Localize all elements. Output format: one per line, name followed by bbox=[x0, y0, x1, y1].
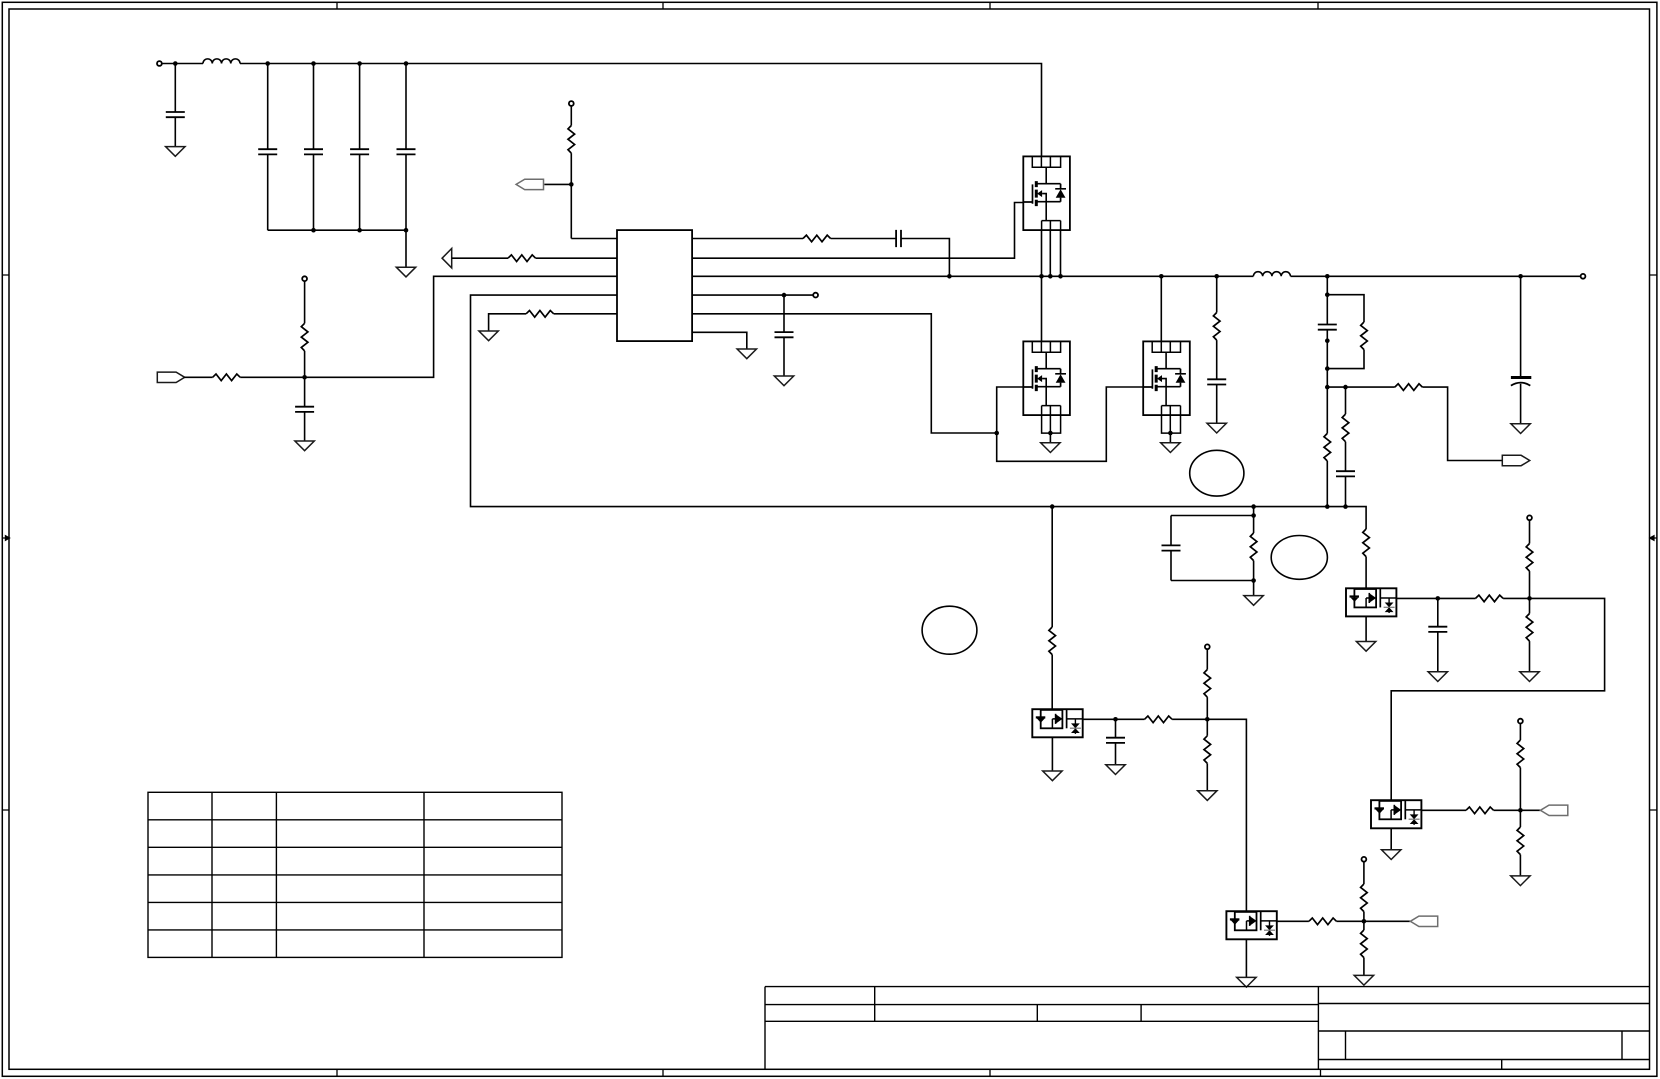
wire bbox=[184, 376, 213, 378]
wire bbox=[1253, 581, 1255, 596]
wire bbox=[1216, 276, 1218, 312]
resistor R11 bbox=[1342, 414, 1349, 442]
node Q3 source junction bbox=[1168, 431, 1173, 436]
revision table bbox=[148, 792, 562, 957]
wire bbox=[1171, 551, 1254, 581]
wire Q2 drain bbox=[1041, 276, 1043, 341]
resistor R4 bbox=[803, 235, 831, 242]
wire bbox=[544, 183, 571, 185]
wire bbox=[359, 64, 361, 150]
terminal VCC bbox=[569, 101, 574, 106]
ground bbox=[1161, 443, 1180, 453]
wire bbox=[783, 295, 785, 332]
wire bbox=[1326, 369, 1328, 388]
resistor R12 bbox=[1363, 529, 1370, 557]
wire bbox=[1115, 719, 1117, 737]
ground bbox=[1520, 672, 1539, 682]
wire gate drive LO bbox=[692, 314, 997, 433]
wire bbox=[783, 337, 785, 376]
ground bbox=[1428, 672, 1447, 682]
wire VIN rail bbox=[240, 64, 1042, 157]
wire bbox=[313, 64, 315, 150]
inductor L1 bbox=[203, 59, 240, 64]
wire bbox=[1363, 921, 1365, 930]
terminal VS1 bbox=[1205, 644, 1210, 649]
flag ISENSE bbox=[1502, 455, 1529, 465]
wire bbox=[1345, 442, 1347, 472]
capacitor C4 bbox=[350, 149, 369, 154]
node top rail junctions bbox=[265, 61, 408, 66]
wire bbox=[1051, 737, 1053, 771]
capacitor C10 bbox=[1318, 325, 1337, 330]
wire bbox=[174, 117, 176, 146]
resistor R2 bbox=[568, 126, 575, 154]
wire bbox=[1422, 387, 1502, 460]
title block bbox=[765, 987, 1650, 1070]
flag VO2 bbox=[1410, 916, 1437, 926]
resistor R10 bbox=[1324, 433, 1331, 461]
node bbox=[1205, 717, 1210, 722]
wire bbox=[1421, 809, 1466, 811]
wire bbox=[1437, 632, 1439, 672]
border zone ticks right bbox=[1650, 275, 1658, 810]
IC U1 bbox=[617, 230, 692, 341]
wire bbox=[1327, 386, 1395, 388]
node EN junction bbox=[569, 182, 574, 187]
wire Q2 Q3 gate net bbox=[997, 387, 1143, 461]
wire cap bus bbox=[268, 230, 406, 267]
wire bbox=[831, 238, 897, 240]
resistor R25 bbox=[1517, 740, 1524, 768]
ground bbox=[1244, 596, 1263, 606]
wire bbox=[1169, 433, 1171, 443]
wire bbox=[359, 154, 361, 230]
resistor R20 bbox=[1361, 930, 1368, 958]
wire bbox=[1277, 920, 1309, 922]
wire bbox=[1363, 958, 1365, 976]
wire bbox=[1437, 598, 1439, 626]
wire bbox=[1365, 557, 1367, 589]
resistor R14 bbox=[1049, 627, 1056, 655]
ground bbox=[1198, 791, 1217, 801]
wire bbox=[1327, 295, 1364, 322]
wire output rail bbox=[1291, 275, 1581, 277]
wire bbox=[405, 154, 407, 230]
wire Q1 source pins bbox=[1042, 230, 1061, 276]
wire bbox=[1529, 520, 1531, 543]
node FB junction bbox=[302, 375, 307, 380]
wire bbox=[1216, 340, 1218, 379]
capacitor C15 bbox=[1428, 627, 1447, 632]
flag FB bbox=[157, 372, 184, 382]
wire bbox=[1206, 649, 1208, 669]
terminal VOUT bbox=[1581, 274, 1586, 279]
wire bbox=[452, 257, 508, 259]
node bbox=[1436, 596, 1441, 601]
capacitor C9 bbox=[1207, 379, 1226, 384]
wire bbox=[1253, 507, 1255, 516]
border zone ticks bottom bbox=[337, 1069, 1321, 1076]
capacitor C5 bbox=[397, 149, 416, 154]
resistor R22 bbox=[1526, 544, 1533, 572]
transistor Q3 bbox=[1143, 341, 1190, 433]
capacitor C3 bbox=[304, 149, 323, 154]
capacitor C7 bbox=[295, 407, 314, 412]
flag EN bbox=[516, 179, 543, 189]
resistor R3 bbox=[508, 255, 536, 262]
wire bbox=[304, 281, 306, 323]
capacitor C1 bbox=[166, 112, 185, 117]
arrow PWM bbox=[442, 249, 452, 268]
wire bbox=[571, 153, 617, 238]
ground bbox=[737, 349, 756, 359]
wire bbox=[1337, 920, 1411, 922]
resistor R9 bbox=[1395, 384, 1423, 391]
node bbox=[1362, 919, 1367, 924]
wire bbox=[1253, 561, 1255, 581]
resistor R13 bbox=[1250, 533, 1257, 561]
ground bbox=[1041, 443, 1060, 453]
node VIN junction bbox=[173, 61, 178, 66]
ground bbox=[166, 147, 185, 157]
wire bbox=[1083, 718, 1145, 720]
wire bbox=[1363, 862, 1365, 884]
capacitor C6 bbox=[896, 230, 901, 247]
wire bbox=[1529, 571, 1531, 598]
wire bbox=[1326, 387, 1328, 433]
node bbox=[1251, 513, 1256, 518]
ground bbox=[479, 331, 498, 341]
wire bbox=[570, 106, 572, 126]
wire bbox=[554, 313, 617, 315]
wire bbox=[1390, 828, 1392, 849]
resistor R15 bbox=[1145, 716, 1173, 723]
resistor R8 bbox=[1361, 322, 1368, 350]
wire bbox=[304, 412, 306, 441]
wire bbox=[1326, 295, 1328, 325]
wire bbox=[692, 294, 813, 296]
wire bbox=[267, 64, 269, 150]
node sense junction bbox=[1325, 385, 1348, 390]
wire bbox=[1326, 330, 1328, 369]
wire bbox=[1051, 655, 1053, 710]
terminal VIN bbox=[157, 61, 162, 66]
wire bbox=[1494, 809, 1541, 811]
border centre arrow right bbox=[1650, 536, 1657, 541]
ground bbox=[1106, 765, 1125, 775]
resistor R21 bbox=[1476, 595, 1504, 602]
wire bbox=[313, 154, 315, 230]
wire link bbox=[1391, 598, 1604, 800]
wire bbox=[692, 238, 803, 240]
wire bbox=[1327, 350, 1364, 369]
node Q2 source junction bbox=[1048, 431, 1053, 436]
ground bbox=[396, 267, 415, 277]
wire bbox=[1253, 516, 1255, 534]
terminal VS4 bbox=[1518, 719, 1523, 724]
resistor R16 bbox=[1204, 670, 1211, 698]
node bbox=[1251, 578, 1256, 583]
node return junctions bbox=[1050, 504, 1348, 509]
capacitor C13 bbox=[1162, 545, 1181, 550]
node snubber top bbox=[1325, 292, 1330, 297]
resistor R1 bbox=[213, 374, 241, 381]
wire bbox=[1216, 385, 1218, 424]
resistor R23 bbox=[1526, 614, 1533, 642]
wire bbox=[240, 376, 304, 378]
node bbox=[1518, 808, 1523, 813]
inductor L2 bbox=[1253, 272, 1290, 277]
diode D4 bbox=[1371, 800, 1421, 828]
capacitor C2 bbox=[258, 149, 277, 154]
resistor R18 bbox=[1309, 918, 1337, 925]
resistor R17 bbox=[1204, 736, 1211, 764]
hole H2 bbox=[1271, 536, 1327, 580]
capacitor C12 polarized bbox=[1511, 378, 1531, 386]
resistor R6 bbox=[526, 311, 554, 318]
diode D3 bbox=[1346, 588, 1396, 616]
border centre arrow left bbox=[2, 536, 9, 541]
ground bbox=[774, 376, 793, 386]
wire bbox=[1172, 718, 1207, 720]
diode D2 bbox=[1226, 911, 1276, 939]
wire bbox=[1206, 763, 1208, 790]
resistor R7 bbox=[1213, 313, 1220, 341]
wire bbox=[1326, 461, 1328, 507]
ground bbox=[1511, 424, 1530, 434]
wire bbox=[174, 64, 176, 113]
wire bbox=[1326, 276, 1328, 294]
ground bbox=[1237, 977, 1256, 987]
resistor R24 bbox=[1466, 807, 1494, 814]
wire bbox=[1396, 597, 1475, 599]
diode D1 bbox=[1032, 709, 1082, 737]
wire bbox=[692, 332, 747, 349]
terminal VS2 bbox=[1362, 857, 1367, 862]
wire GND return bbox=[471, 295, 1367, 529]
wire switch rail bbox=[692, 275, 1253, 277]
node cap bus junctions bbox=[311, 228, 408, 233]
wire bbox=[1520, 276, 1522, 376]
wire gate drive HO bbox=[692, 203, 1023, 259]
terminal VS3 bbox=[1527, 515, 1532, 520]
node gate junction bbox=[994, 431, 999, 436]
wire bbox=[1049, 433, 1051, 443]
wire bbox=[304, 351, 306, 407]
wire bbox=[1529, 598, 1531, 613]
wire bbox=[1345, 476, 1347, 506]
flag VO3 bbox=[1540, 805, 1567, 815]
border zone ticks left bbox=[2, 275, 9, 810]
terminal VREF bbox=[302, 276, 307, 281]
wire bbox=[162, 63, 203, 65]
node rail junctions bbox=[947, 274, 1523, 279]
wire bbox=[1519, 810, 1521, 827]
ground bbox=[1382, 850, 1401, 860]
ground bbox=[295, 441, 314, 451]
wire feedback bbox=[305, 276, 617, 377]
capacitor C14 bbox=[1106, 738, 1125, 743]
ground bbox=[1354, 975, 1373, 985]
wire bbox=[1345, 387, 1347, 414]
node bbox=[1325, 338, 1330, 343]
wire bbox=[1051, 507, 1053, 627]
wire bbox=[536, 257, 617, 259]
wire bbox=[1115, 743, 1117, 765]
ground bbox=[1356, 642, 1375, 652]
resistor R5 bbox=[301, 323, 308, 351]
transistor Q1 bbox=[1023, 156, 1070, 230]
hole H1 bbox=[1190, 450, 1244, 496]
ground bbox=[1043, 771, 1062, 781]
wire bbox=[1520, 384, 1522, 424]
wire bbox=[267, 154, 269, 230]
node snubber bottom bbox=[1325, 366, 1330, 371]
ground bbox=[1511, 876, 1530, 886]
node bbox=[1113, 717, 1118, 722]
wire bbox=[1519, 723, 1521, 740]
wire Q3 drain bbox=[1160, 276, 1162, 341]
wire bbox=[1519, 768, 1521, 811]
capacitor C8 bbox=[775, 332, 794, 337]
wire bbox=[1245, 939, 1247, 977]
wire bbox=[1519, 855, 1521, 876]
wire bbox=[1365, 616, 1367, 641]
node COMP junction bbox=[782, 293, 787, 298]
wire bbox=[1171, 516, 1254, 546]
wire bbox=[1207, 719, 1246, 911]
hole H3 bbox=[922, 606, 977, 654]
ground bbox=[1207, 423, 1226, 433]
border zone ticks top bbox=[337, 2, 1318, 9]
wire bbox=[901, 239, 949, 277]
wire bbox=[1363, 912, 1365, 922]
capacitor C11 bbox=[1336, 471, 1355, 476]
resistor R19 bbox=[1361, 884, 1368, 912]
transistor Q2 bbox=[1023, 341, 1070, 433]
node bbox=[1527, 596, 1532, 601]
wire bbox=[1503, 597, 1529, 599]
wire bbox=[405, 64, 407, 150]
wire bbox=[1206, 719, 1208, 736]
wire bbox=[489, 314, 526, 331]
wire bbox=[1529, 641, 1531, 672]
terminal COMP bbox=[813, 293, 818, 298]
resistor R26 bbox=[1517, 827, 1524, 855]
wire bbox=[1206, 697, 1208, 719]
